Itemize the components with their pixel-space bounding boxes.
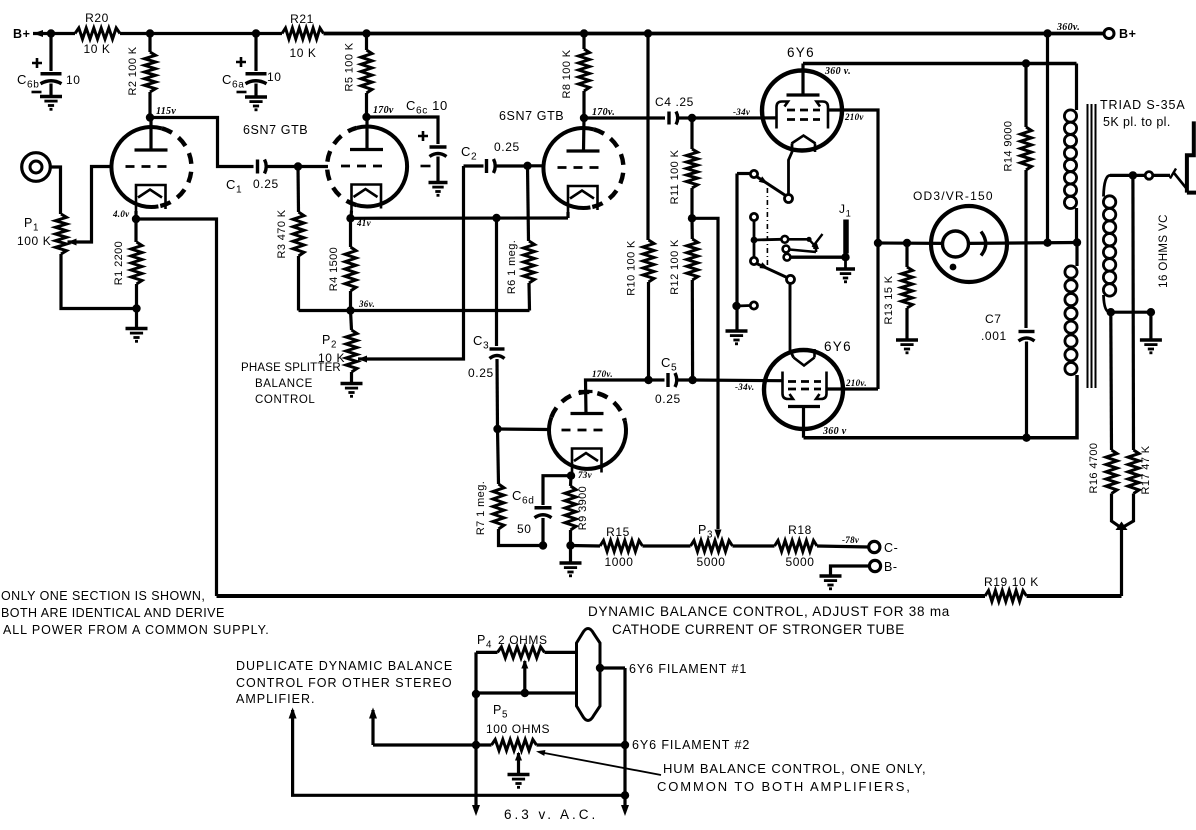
svg-text:2 OHMS: 2 OHMS [498,633,548,647]
svg-text:360v.: 360v. [1056,22,1080,33]
switch pole 1 to 6Y6 no1 cathode [785,195,793,203]
wire V2 plate lead [365,117,368,150]
ground below secondary [1149,312,1152,339]
triode V2 6SN7 second section [357,127,407,207]
wire P1 bottom to ground bus [61,254,137,309]
wire contacts chain [753,221,756,258]
wire to J1 jack [790,256,843,259]
svg-text:100 OHMS: 100 OHMS [486,722,550,736]
svg-text:R21: R21 [290,12,314,26]
resistor R12 100K [690,218,693,239]
capacitor C7 .001 [1019,330,1035,333]
wire V1 plate lead [149,118,152,151]
svg-text:6Y6: 6Y6 [787,45,815,60]
svg-text:R14 9000: R14 9000 [1003,121,1015,172]
svg-text:100 K: 100 K [17,234,51,248]
wire V4 cathode lead [571,475,572,476]
svg-text:C-: C- [884,541,898,555]
wiper of P4 [521,660,528,669]
ground below C6c [429,181,448,185]
potentiometer P1 100K [56,214,67,254]
switch contact bottom left [750,302,757,309]
node V2 cathode 41v [346,214,354,222]
meter contact circles [781,236,788,243]
node filament no1 [596,664,604,672]
resistor R20 [75,28,120,39]
capacitor C3 0.25 [495,218,498,346]
svg-text:10: 10 [66,73,81,87]
wire OD3 right to B+ node [969,241,1078,245]
wire P4 wiper bus to plug [476,693,577,694]
wire feedback line [217,594,986,598]
svg-text:0.25: 0.25 [468,366,494,380]
svg-text:BOTH ARE IDENTICAL AND DERIVE: BOTH ARE IDENTICAL AND DERIVE [1,606,225,620]
svg-text:PHASE SPLITTER: PHASE SPLITTER [241,362,341,374]
svg-text:R6 1 meg.: R6 1 meg. [506,240,518,294]
switch contact top left [750,170,757,177]
plate of 6Y6 no1 [787,93,820,96]
svg-text:36v.: 36v. [358,299,375,309]
ground below P2 [341,382,363,386]
svg-text:TRIAD S-35A: TRIAD S-35A [1100,98,1186,112]
svg-text:1000: 1000 [604,555,633,569]
node R1 bottom [132,304,140,312]
svg-text:AMPLIFIER.: AMPLIFIER. [236,692,315,706]
svg-text:R3 470 K: R3 470 K [276,209,288,258]
capacitor C6b [49,34,52,72]
node junction dots on B+ rail [47,29,55,37]
node C- terminal [869,541,880,552]
resistor R16 4700 [1109,312,1113,450]
node 170v V2 plate node [362,113,370,121]
svg-text:10: 10 [267,70,282,84]
wire filament no1 drop [623,668,626,745]
resistor R14 9000 [1022,59,1030,67]
wire jack to P1 [50,167,60,214]
svg-text:0.25: 0.25 [253,177,279,191]
resistor R17 47K [1131,175,1135,450]
resistor R15 1000 [600,541,643,552]
svg-text:CATHODE CURRENT OF STRONGER TU: CATHODE CURRENT OF STRONGER TUBE [612,622,905,637]
capacitor C6d 50 [543,476,571,505]
svg-text:6Y6 FILAMENT #2: 6Y6 FILAMENT #2 [632,738,750,752]
wiper of P2 [358,356,367,363]
ganged link dashed [766,188,768,269]
capacitor C1 0.25 [256,160,259,174]
svg-text:R18: R18 [788,523,812,537]
capacitor C4 .25 [667,112,670,125]
speaker terminal hook [1187,121,1196,192]
svg-text:OD3/VR-150: OD3/VR-150 [913,189,994,203]
svg-text:C7: C7 [985,312,1002,326]
svg-text:HUM BALANCE CONTROL, ONE ONLY,: HUM BALANCE CONTROL, ONE ONLY, [663,761,926,776]
wire 6Y6 no2 screen to 210v bus [827,387,879,390]
wire secondary top to output [1110,174,1145,177]
wire to C- terminal [817,546,869,547]
node R16 R17 junction [1116,522,1128,531]
node B- terminal [869,560,880,571]
ground below C6a [245,95,267,99]
svg-text:73v: 73v [578,470,593,480]
svg-text:-34v: -34v [733,107,751,117]
meter arrow marks [788,238,809,241]
svg-text:R10 100 K: R10 100 K [626,240,638,296]
beam plates of 6Y6 no2 [783,372,794,400]
svg-text:5000: 5000 [785,555,814,569]
potentiometer P4 2 OHMS [498,647,545,658]
wire secondary bottom [1110,311,1151,314]
cathode of 6Y6 no1 [792,136,816,144]
svg-text:R13 15 K: R13 15 K [883,275,895,324]
transformer secondary [1104,175,1111,196]
svg-text:COMMON TO BOTH AMPLIFIERS,: COMMON TO BOTH AMPLIFIERS, [657,779,912,794]
plate of 6Y6 no2 [788,405,820,408]
svg-text:R9 3900: R9 3900 [577,486,589,530]
transformer primary bottom section [1075,243,1078,267]
wire 6Y6 no2 plate 360v to transformer [804,375,1078,438]
svg-text:.001: .001 [981,329,1007,343]
capacitor C2 0.25 [464,164,484,167]
svg-text:R11 100 K: R11 100 K [669,149,681,204]
svg-text:170v: 170v [373,105,394,116]
filament plug outline [577,629,601,721]
node V4 cathode 73v [567,472,575,480]
triode V1 6SN7 first section [111,127,161,207]
node C6d bottom [539,541,547,549]
triode V4 phase splitter [549,417,626,469]
node V1 cathode 4.0v [132,215,140,223]
svg-text:CONTROL FOR OTHER STEREO: CONTROL FOR OTHER STEREO [236,676,453,690]
wire V3 plate lead [582,118,586,151]
tube 6Y6 number 2 [764,350,843,429]
svg-text:16 OHMS VC: 16 OHMS VC [1158,214,1170,288]
ground below R9 [569,546,572,563]
wire switch left bus [737,172,751,175]
node output connector [1145,172,1153,180]
switch pole 2 to 6Y6 no2 cathode [787,275,795,283]
svg-text:R16 4700: R16 4700 [1088,443,1100,494]
svg-text:R20: R20 [85,11,109,25]
node R10 bottom V4 plate node [644,376,652,384]
svg-text:B+: B+ [1119,27,1137,41]
tube OD3/VR-150 voltage regulator [931,206,1007,282]
svg-text:6Y6 FILAMENT #1: 6Y6 FILAMENT #1 [629,662,747,676]
node V4 grid junction [493,425,501,433]
resistor R10 100K [643,240,654,282]
switch blade 1 [757,177,786,196]
wiper of P1 [68,239,77,246]
resistor R21 [282,28,324,39]
wire V2 plate node to C6c [367,117,439,144]
input jack connector [22,153,51,182]
svg-text:170v.: 170v. [592,369,613,379]
svg-text:ONLY ONE SECTION IS SHOWN,: ONLY ONE SECTION IS SHOWN, [1,589,205,603]
switch contact mid left lower [750,257,757,264]
svg-text:210v: 210v [844,112,864,122]
ground below R13 [896,338,918,342]
arrow up to other amp 1 [289,708,297,719]
node 115v V1 plate node [146,113,154,121]
svg-text:6SN7 GTB: 6SN7 GTB [499,109,564,123]
ground below R1 [135,309,138,329]
cathode of 6Y6 no2 [794,358,815,366]
wire B+ vertical drop [1046,34,1049,243]
resistor R1 2200 [134,219,137,242]
tube 6Y6 number 1 [762,71,842,151]
node 170v V3 plate node [580,114,588,122]
node C4 right junction [688,114,696,122]
wire R10 top from rail [646,34,649,241]
resistor R8 100K [582,34,585,50]
svg-text:10 K: 10 K [289,46,316,60]
svg-text:R2 100 K: R2 100 K [127,46,139,95]
wire to 6Y6 no2 grid [693,378,783,382]
svg-text:CONTROL: CONTROL [255,394,315,406]
wire 6Y6 no1 screen to 210v bus [828,110,878,389]
node C5 R12 junction [688,376,696,384]
resistor R4 1500 [349,218,352,247]
switch contact mid left upper [750,213,757,220]
svg-text:R12 100 K: R12 100 K [669,239,681,295]
wire V1 plate node to C1 [150,118,254,167]
wire V3 cathode lead to cathode bus [566,212,569,218]
svg-text:R5 100 K: R5 100 K [344,42,356,91]
svg-text:10 K: 10 K [83,42,110,56]
svg-text:5000: 5000 [696,555,725,569]
grids of 6Y6 no1 [787,109,820,112]
svg-text:-34v.: -34v. [735,382,754,392]
resistor R19 10K [985,591,1027,602]
svg-text:ALL POWER FROM A COMMON SUPPLY: ALL POWER FROM A COMMON SUPPLY. [3,623,270,637]
svg-text:6SN7 GTB: 6SN7 GTB [243,123,308,137]
resistor R18 5000 [775,541,818,552]
svg-text:R7 1 meg.: R7 1 meg. [475,481,487,535]
svg-text:115v: 115v [156,106,176,117]
ground below C6b [40,95,62,99]
jack J1 [843,220,849,254]
resistor R13 15K [905,243,908,267]
svg-text:4.0v: 4.0v [112,209,130,219]
node C3 top junction [492,214,500,222]
wire 6Y6 no1 plate to transformer 360v [803,62,1077,66]
node C1 to V2 grid junction [294,162,302,170]
ground below J1 [844,257,847,268]
wire P4 left branch [474,652,477,745]
wire 6.3v AC drops [474,745,477,809]
resistor R2 100K [148,34,151,53]
wire V3 plate to C4 [584,116,665,119]
svg-text:R19 10 K: R19 10 K [984,575,1039,589]
wire V4 plate lead to R10 line [586,380,649,414]
switch blade 2 [757,264,788,278]
wire bias line [571,544,601,548]
svg-text:360 v.: 360 v. [824,66,851,77]
svg-text:DYNAMIC BALANCE CONTROL, ADJUS: DYNAMIC BALANCE CONTROL, ADJUST FOR 38 m… [588,604,950,619]
node 36v bias line junction [346,306,354,314]
resistor R7 1 meg [498,429,499,484]
svg-text:0.25: 0.25 [494,140,520,154]
svg-text:R8 100 K: R8 100 K [561,49,573,98]
svg-text:0.25: 0.25 [655,392,681,406]
pointer line to P5 wiper [539,752,661,775]
svg-text:R17 47 K: R17 47 K [1140,445,1152,494]
svg-text:210v.: 210v. [845,378,867,388]
capacitor C5 0.25 [649,378,665,381]
potentiometer P2 10K phase splitter balance [351,311,352,331]
output check mark [1170,169,1176,179]
wire V1 cathode to feedback line [136,219,217,596]
wire cathode bus V2 V3 [351,216,569,220]
svg-text:360 v: 360 v [822,426,847,437]
resistor R3 470K [296,167,300,213]
node R9 bottom ground node [566,541,574,549]
ground below B- [820,574,842,578]
potentiometer P3 5000 dynamic balance [691,541,733,552]
grids of 6Y6 no2 [788,380,821,383]
transformer core [1088,104,1096,388]
wire V1 cathode lead [134,211,137,219]
triode V3 6SN7 [543,128,593,208]
wire 36v bias line R3 R4 P2 R6 [299,309,530,312]
svg-text:50: 50 [517,522,532,536]
beam plates of 6Y6 no1 [777,102,789,129]
svg-text:B+: B+ [13,27,31,41]
svg-text:B-: B- [884,560,898,574]
wire top B+ rail [33,32,75,35]
ground below switch bus [726,329,748,333]
svg-text:C4 .25: C4 .25 [655,95,694,109]
capacitor C6c [430,145,447,148]
wire B- to ground [831,566,870,576]
node R11 R12 junction [688,214,696,222]
wire V2 cathode lead [349,211,353,219]
node C2 to V3 grid junction [523,162,531,170]
svg-text:5K pl. to pl.: 5K pl. to pl. [1103,115,1171,129]
svg-text:R4 1500: R4 1500 [328,247,340,291]
svg-text:-78v: -78v [842,535,860,545]
wire 210v bus to OD3 [878,241,943,245]
wire C4 junction to 6Y6 no1 grid [692,116,777,119]
svg-text:BALANCE: BALANCE [255,378,313,390]
potentiometer P5 100 OHMS hum balance [373,743,492,746]
arrow up to other amp 2 [369,708,377,719]
resistor R11 100K [690,118,693,149]
svg-text:6Y6: 6Y6 [824,339,852,354]
svg-text:DUPLICATE DYNAMIC BALANCE: DUPLICATE DYNAMIC BALANCE [236,659,453,673]
wiper of P5 to ground [515,752,522,761]
svg-text:6.3 v. A.C.: 6.3 v. A.C. [504,807,598,822]
svg-text:R1 2200: R1 2200 [113,241,125,285]
svg-text:170v.: 170v. [592,107,615,118]
capacitor C6a [254,34,257,72]
node B+ right terminal [1104,29,1114,39]
wiper of P3 from R11 R12 junction [692,218,718,529]
svg-text:R15: R15 [606,525,630,539]
transformer primary top section [1075,64,1078,111]
resistor R6 1 meg [528,166,529,241]
resistor R5 100K [365,34,368,51]
resistor R9 3900 [569,476,573,486]
